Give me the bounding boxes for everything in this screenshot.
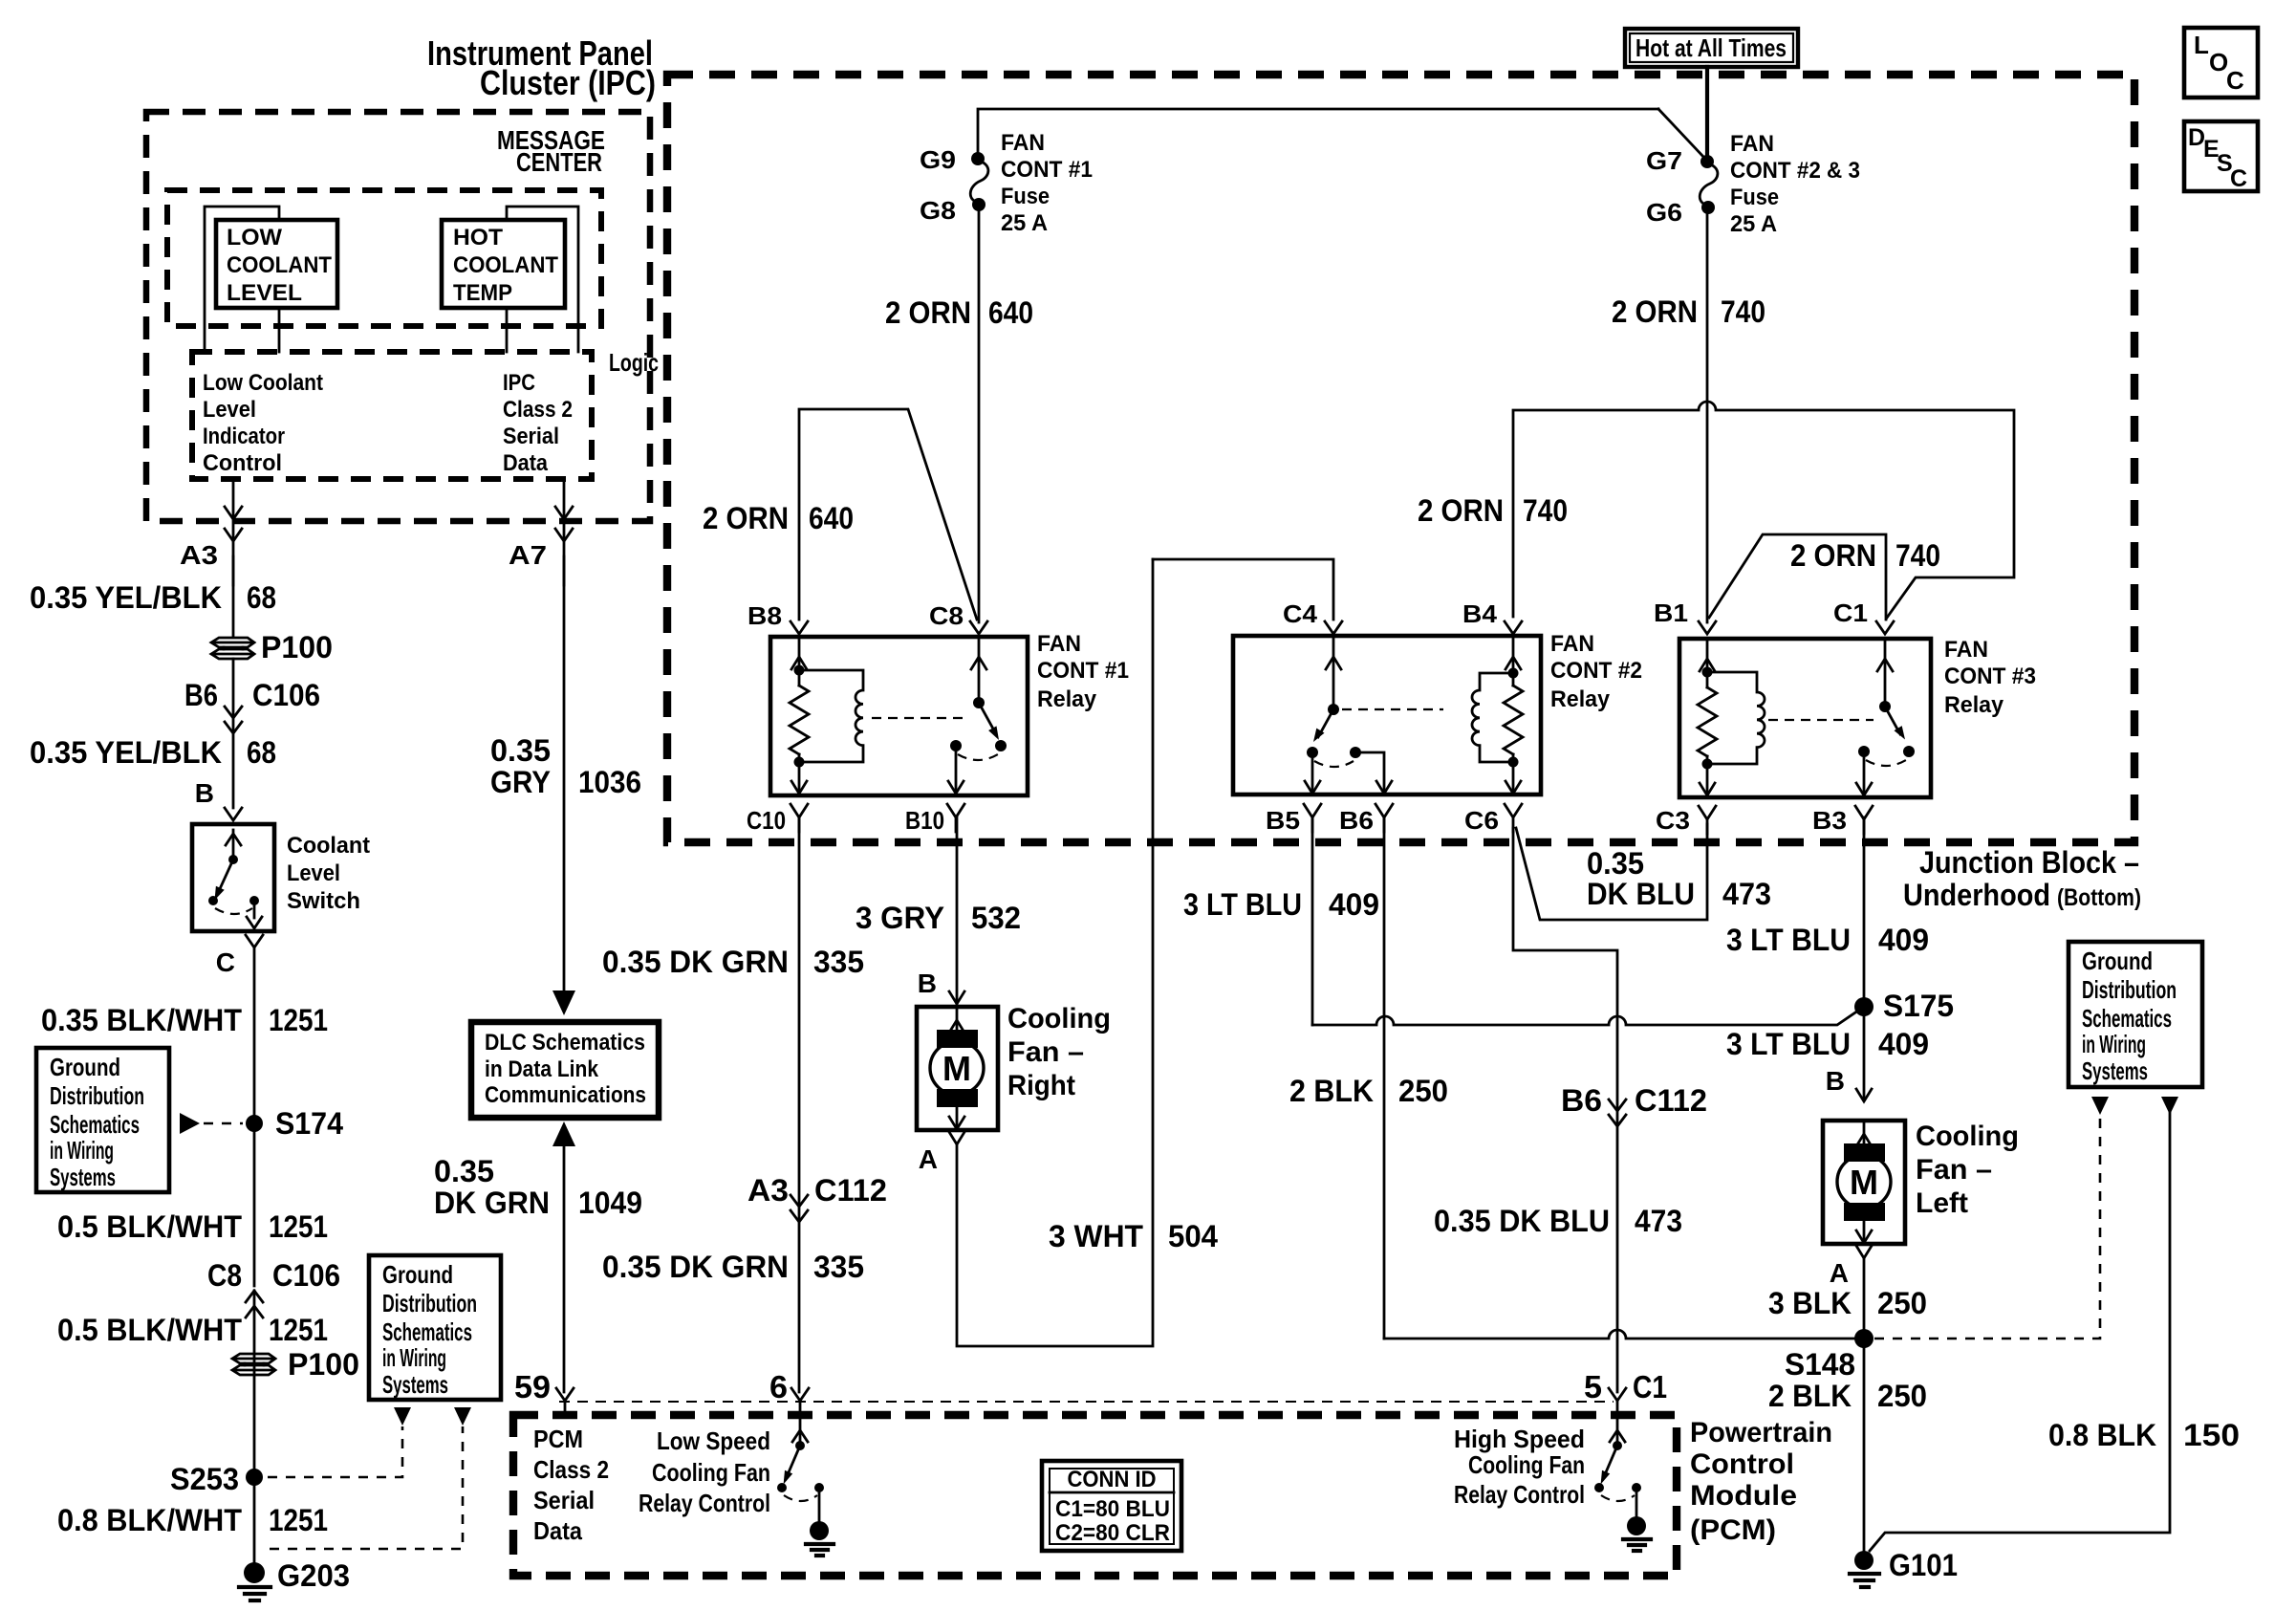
svg-text:C112: C112 xyxy=(1635,1083,1707,1118)
svg-text:B1: B1 xyxy=(1654,599,1688,627)
svg-text:Cluster (IPC): Cluster (IPC) xyxy=(480,63,656,102)
svg-text:Cooling Fan: Cooling Fan xyxy=(1468,1450,1585,1479)
pin C3 xyxy=(1656,806,1716,835)
svg-text:B4: B4 xyxy=(1462,599,1498,628)
wire fan left A to S148 xyxy=(1863,1258,1866,1339)
svg-text:250: 250 xyxy=(1398,1074,1448,1108)
svg-text:1251: 1251 xyxy=(269,1003,328,1037)
svg-text:Class 2: Class 2 xyxy=(533,1455,609,1484)
svg-text:B6: B6 xyxy=(1561,1083,1602,1118)
svg-text:Serial: Serial xyxy=(533,1486,595,1514)
svg-text:S175: S175 xyxy=(1883,989,1954,1023)
svg-text:Schematics: Schematics xyxy=(50,1110,140,1139)
HOT COOLANT TEMP indicator box xyxy=(442,220,565,308)
wire label 2 ORN 640 xyxy=(885,295,1033,330)
coolant level switch box xyxy=(192,824,274,931)
svg-text:(PCM): (PCM) xyxy=(1690,1514,1776,1546)
wire C4 feed from 3 WHT xyxy=(1153,559,1333,620)
svg-text:25 A: 25 A xyxy=(1001,210,1048,236)
wire HOT lamp supply loop xyxy=(507,207,578,352)
svg-text:473: 473 xyxy=(1635,1204,1682,1238)
MESSAGE CENTER dashed box xyxy=(167,190,601,326)
svg-text:CONT #2 & 3: CONT #2 & 3 xyxy=(1730,158,1860,184)
svg-text:1049: 1049 xyxy=(578,1186,642,1220)
svg-text:Level: Level xyxy=(287,860,340,886)
wire S148 to G101 xyxy=(1863,1339,1866,1552)
svg-text:C106: C106 xyxy=(272,1258,340,1293)
svg-text:L: L xyxy=(2194,31,2209,59)
wire label 2 ORN 740 xyxy=(1612,294,1765,329)
Hot at All Times box xyxy=(1625,29,1798,67)
svg-text:G6: G6 xyxy=(1646,198,1682,227)
relay 1 coil xyxy=(799,670,863,762)
pin B of cooling fan right xyxy=(918,969,964,1004)
svg-text:Distribution: Distribution xyxy=(382,1289,477,1317)
svg-text:409: 409 xyxy=(1878,1027,1929,1061)
svg-text:2 BLK: 2 BLK xyxy=(1289,1074,1374,1108)
svg-text:S148: S148 xyxy=(1785,1347,1855,1382)
LOW COOLANT LEVEL indicator box xyxy=(216,220,337,308)
svg-text:Logic: Logic xyxy=(609,348,659,377)
pin B6 xyxy=(1339,804,1393,835)
svg-text:740: 740 xyxy=(1721,294,1765,329)
svg-text:A7: A7 xyxy=(509,540,547,570)
wire label 2 ORN 640 at B8 xyxy=(703,501,854,535)
svg-text:Data: Data xyxy=(533,1516,582,1545)
svg-text:2 ORN: 2 ORN xyxy=(1418,493,1504,528)
wire label 3 LT BLU 409 at B5 xyxy=(1183,887,1379,922)
wire label 2 BLK 250 at G101 xyxy=(1768,1379,1927,1413)
wire label 0.5 BLK/WHT 1251 xyxy=(57,1313,328,1347)
svg-text:FAN: FAN xyxy=(1730,131,1774,157)
svg-text:G8: G8 xyxy=(920,196,956,225)
svg-text:Control: Control xyxy=(1690,1448,1794,1480)
svg-text:2 BLK: 2 BLK xyxy=(1768,1379,1852,1413)
svg-text:2 ORN: 2 ORN xyxy=(1790,538,1876,573)
wire B3 down to cooling fan left xyxy=(1863,817,1866,1100)
svg-text:Fuse: Fuse xyxy=(1730,185,1779,210)
pin 59 of PCM xyxy=(514,1369,574,1415)
svg-text:in Data Link: in Data Link xyxy=(485,1056,599,1082)
svg-text:in Wiring: in Wiring xyxy=(50,1136,114,1165)
dashed reference S253 to ground distribution box xyxy=(268,1426,402,1477)
svg-text:250: 250 xyxy=(1877,1379,1927,1413)
wire label 0.35 DK BLU 473 upper xyxy=(1587,846,1771,911)
fuse FAN CONT #1 25A xyxy=(970,152,988,211)
svg-text:Coolant: Coolant xyxy=(287,833,370,859)
svg-text:S253: S253 xyxy=(170,1462,239,1496)
svg-text:Ground: Ground xyxy=(50,1053,120,1081)
cooling fan left motor xyxy=(1823,1121,1905,1244)
wire label 0.35 YEL/BLK 68 xyxy=(30,580,276,615)
DESC reference box xyxy=(2184,121,2258,192)
ground symbol inside PCM high speed xyxy=(1623,1516,1651,1551)
pin C10 xyxy=(747,804,808,835)
relay 3 switch xyxy=(1856,639,1915,795)
svg-text:2 ORN: 2 ORN xyxy=(703,501,789,535)
reference arrow mid left xyxy=(394,1407,411,1426)
svg-text:0.35 DK GRN: 0.35 DK GRN xyxy=(602,1250,789,1284)
svg-text:C4: C4 xyxy=(1283,599,1318,628)
svg-text:G203: G203 xyxy=(277,1558,350,1593)
svg-text:C: C xyxy=(2226,66,2244,95)
svg-text:G9: G9 xyxy=(920,145,956,174)
svg-text:0.35: 0.35 xyxy=(490,733,551,768)
svg-text:C8: C8 xyxy=(929,601,964,630)
pin 6 of PCM xyxy=(769,1369,809,1404)
Coolant Level Switch label xyxy=(287,833,370,914)
high speed fan relay control driver switch xyxy=(1594,1401,1641,1518)
wire C10 down to PCM pin 6 xyxy=(798,817,801,1392)
IPC Class 2 Serial Data label xyxy=(503,370,573,476)
svg-text:Relay Control: Relay Control xyxy=(639,1489,770,1517)
svg-text:150: 150 xyxy=(2183,1418,2240,1452)
svg-text:C1: C1 xyxy=(1633,1369,1667,1404)
FAN CONT #1 Fuse 25 A label xyxy=(1001,130,1093,236)
MESSAGE CENTER label xyxy=(497,125,605,177)
svg-text:0.35 YEL/BLK: 0.35 YEL/BLK xyxy=(30,735,222,770)
svg-text:(Bottom): (Bottom) xyxy=(2057,884,2141,911)
svg-text:M: M xyxy=(942,1049,971,1088)
svg-text:0.5 BLK/WHT: 0.5 BLK/WHT xyxy=(57,1313,242,1347)
svg-text:C106: C106 xyxy=(252,678,320,712)
svg-text:Underhood: Underhood xyxy=(1903,878,2050,912)
svg-text:Junction Block –: Junction Block – xyxy=(1919,845,2139,880)
svg-text:Cooling Fan: Cooling Fan xyxy=(652,1458,770,1487)
svg-text:M: M xyxy=(1850,1163,1878,1202)
svg-text:Relay Control: Relay Control xyxy=(1454,1480,1585,1509)
svg-text:Powertrain: Powertrain xyxy=(1690,1417,1832,1448)
pin A of cooling fan right xyxy=(919,1132,964,1174)
pin C1 xyxy=(1833,599,1894,634)
wire 3 WHT 504 fan right A to relay 2 C4 xyxy=(957,559,1153,1346)
Junction Block dashed box xyxy=(667,75,2134,842)
svg-text:COOLANT: COOLANT xyxy=(453,252,558,278)
svg-text:Hot at All Times: Hot at All Times xyxy=(1635,33,1787,62)
FAN CONT #1 Relay label xyxy=(1037,631,1129,712)
wire label 0.8 BLK/WHT 1251 xyxy=(57,1503,328,1537)
svg-text:B10: B10 xyxy=(905,806,944,835)
connector B6 C112 xyxy=(1561,1083,1707,1126)
wire switch C to S174 xyxy=(253,947,256,1286)
svg-text:DK BLU: DK BLU xyxy=(1587,877,1695,911)
svg-text:C6: C6 xyxy=(1464,806,1499,835)
svg-text:Communications: Communications xyxy=(485,1082,646,1108)
svg-text:3 BLK: 3 BLK xyxy=(1768,1286,1852,1320)
wire label 0.35 GRY 1036 xyxy=(490,733,641,799)
wire B6 down 2 BLK 250 xyxy=(1383,817,1386,1339)
wire label 0.8 BLK 150 xyxy=(2048,1418,2240,1452)
Instrument Panel Cluster (IPC) title xyxy=(427,33,656,102)
wire IPC output A3 xyxy=(225,479,242,585)
ground distribution reference box right xyxy=(2069,942,2202,1087)
wire label 2 ORN 740 at jumper xyxy=(1790,538,1940,573)
svg-text:3 LT BLU: 3 LT BLU xyxy=(1183,887,1302,922)
svg-text:1251: 1251 xyxy=(269,1209,328,1244)
svg-text:in Wiring: in Wiring xyxy=(2082,1030,2146,1058)
PCM connector C1 thin dashed boundary xyxy=(559,1401,1614,1403)
relay 3 coil xyxy=(1707,672,1765,764)
pin C8 xyxy=(929,601,987,634)
svg-text:Relay: Relay xyxy=(1550,686,1611,712)
Cooling Fan Right label xyxy=(1007,1003,1111,1101)
reference arrow right solid xyxy=(2161,1097,2178,1115)
svg-text:Systems: Systems xyxy=(50,1163,116,1191)
svg-text:0.35 DK BLU: 0.35 DK BLU xyxy=(1434,1204,1610,1238)
Low Speed Cooling Fan Relay Control label xyxy=(639,1426,770,1517)
Cooling Fan Left label xyxy=(1916,1121,2019,1219)
splice S148 xyxy=(1785,1329,1874,1382)
wire IPC output A7 xyxy=(555,479,573,585)
svg-text:0.35: 0.35 xyxy=(434,1154,494,1188)
svg-text:2 ORN: 2 ORN xyxy=(885,295,971,330)
wire label 0.35 YEL/BLK 68 xyxy=(30,735,276,770)
svg-text:C2=80 CLR: C2=80 CLR xyxy=(1055,1520,1170,1546)
wire label 3 BLK 250 xyxy=(1768,1286,1927,1320)
cooling fan right motor xyxy=(917,1007,998,1130)
svg-text:TEMP: TEMP xyxy=(453,280,512,306)
svg-text:3 LT BLU: 3 LT BLU xyxy=(1726,1027,1851,1061)
wire label 0.35 DK BLU 473 lower xyxy=(1434,1204,1682,1238)
relay 2 armature dashed link xyxy=(1342,708,1443,710)
svg-text:640: 640 xyxy=(809,501,854,535)
svg-text:FAN: FAN xyxy=(1037,631,1081,657)
wire B10 down to cooling fan right xyxy=(956,817,959,1005)
wire label 3 WHT 504 xyxy=(1049,1219,1218,1253)
relay 3 coil branch B1 xyxy=(1698,639,1717,795)
svg-text:A3: A3 xyxy=(747,1173,789,1208)
svg-text:640: 640 xyxy=(988,295,1033,330)
connector C8 C106 xyxy=(207,1258,340,1317)
splice S174 xyxy=(246,1106,343,1141)
svg-text:B: B xyxy=(1826,1066,1845,1096)
fuse FAN CONT #2 & 3 25A xyxy=(1700,155,1718,214)
IPC outer dashed box xyxy=(146,112,650,521)
pin B1 xyxy=(1654,599,1716,634)
arrow into DLC box xyxy=(552,991,575,1015)
svg-text:CENTER: CENTER xyxy=(516,147,602,177)
Powertrain Control Module (PCM) label xyxy=(1690,1417,1832,1546)
svg-text:C: C xyxy=(2230,165,2247,192)
svg-text:LOW: LOW xyxy=(227,225,282,250)
pin 5 C1 of PCM xyxy=(1584,1369,1667,1404)
svg-text:59: 59 xyxy=(514,1369,551,1404)
pin B10 xyxy=(905,804,964,835)
svg-text:0.5 BLK/WHT: 0.5 BLK/WHT xyxy=(57,1209,242,1244)
svg-text:1036: 1036 xyxy=(578,765,641,799)
svg-text:S174: S174 xyxy=(275,1106,343,1141)
wire label 0.35 DK GRN 335 upper xyxy=(602,945,864,979)
svg-text:C8: C8 xyxy=(207,1258,242,1293)
svg-text:CONT #1: CONT #1 xyxy=(1037,658,1129,684)
svg-text:C112: C112 xyxy=(814,1173,887,1208)
svg-text:Distribution: Distribution xyxy=(2082,975,2177,1004)
svg-text:0.35: 0.35 xyxy=(1587,846,1644,881)
svg-text:GRY: GRY xyxy=(490,765,551,799)
LOC reference box xyxy=(2184,28,2258,98)
svg-text:25 A: 25 A xyxy=(1730,211,1777,237)
svg-text:COOLANT: COOLANT xyxy=(227,252,332,278)
wire LOW lamp to logic xyxy=(278,308,281,352)
svg-text:409: 409 xyxy=(1878,923,1929,957)
wire fuse1 output 2 ORN 640 down to C8 xyxy=(978,209,981,622)
pin B8 xyxy=(747,601,808,634)
reference arrow to S174 xyxy=(180,1113,243,1134)
wire P100 to C106 xyxy=(232,659,235,808)
svg-text:740: 740 xyxy=(1523,493,1568,528)
svg-text:335: 335 xyxy=(813,1250,864,1284)
svg-text:Left: Left xyxy=(1916,1187,1968,1219)
svg-text:3 GRY: 3 GRY xyxy=(856,901,944,935)
svg-text:Low Speed: Low Speed xyxy=(657,1426,770,1455)
svg-text:P100: P100 xyxy=(288,1347,359,1382)
svg-text:DLC Schematics: DLC Schematics xyxy=(485,1030,645,1056)
ground distribution reference box middle xyxy=(369,1255,501,1400)
svg-text:Level: Level xyxy=(203,397,256,423)
svg-text:P100: P100 xyxy=(261,630,333,664)
ground G101 xyxy=(1850,1548,1958,1587)
relay 1 coil branch B8 xyxy=(790,637,809,794)
svg-text:504: 504 xyxy=(1168,1219,1218,1253)
svg-text:Fuse: Fuse xyxy=(1001,184,1050,209)
wire hot feed down to G7 xyxy=(1705,67,1709,159)
Logic dashed box xyxy=(192,352,592,479)
CONN ID table xyxy=(1042,1461,1181,1551)
relay FAN CONT #1 box xyxy=(770,637,1028,795)
svg-text:C3: C3 xyxy=(1656,806,1690,835)
ground distribution reference box left xyxy=(36,1048,169,1192)
svg-text:Systems: Systems xyxy=(2082,1056,2148,1085)
svg-text:CONT #2: CONT #2 xyxy=(1550,658,1642,684)
svg-text:Low Coolant: Low Coolant xyxy=(203,370,323,396)
relay 2 coil xyxy=(1472,673,1513,762)
PCM Class 2 Serial Data label xyxy=(533,1425,609,1545)
coolant level switch contacts xyxy=(208,830,262,928)
wire label 2 ORN 740 at B4 xyxy=(1418,493,1568,528)
svg-text:68: 68 xyxy=(247,580,276,615)
svg-text:FAN: FAN xyxy=(1001,130,1045,156)
svg-text:A3: A3 xyxy=(180,540,218,570)
svg-text:B8: B8 xyxy=(747,601,782,630)
svg-text:1251: 1251 xyxy=(269,1313,328,1347)
pin A of cooling fan left xyxy=(1830,1246,1872,1288)
wire fuse2 output 2 ORN 740 down to B1 xyxy=(1706,212,1709,622)
pin C6 xyxy=(1464,804,1522,835)
ground G203 xyxy=(239,1558,350,1600)
svg-text:3 LT BLU: 3 LT BLU xyxy=(1726,923,1851,957)
svg-text:Schematics: Schematics xyxy=(382,1317,472,1346)
svg-text:Class 2: Class 2 xyxy=(503,397,573,423)
svg-text:B5: B5 xyxy=(1266,806,1300,835)
svg-text:Indicator: Indicator xyxy=(203,424,285,449)
svg-text:C1=80 BLU: C1=80 BLU xyxy=(1055,1496,1170,1522)
svg-text:0.8 BLK: 0.8 BLK xyxy=(2048,1418,2156,1452)
pin C of coolant level switch xyxy=(216,935,263,977)
connector P100 lower xyxy=(232,1347,359,1382)
relay 1 armature dashed link xyxy=(872,717,968,719)
wire label 0.5 BLK/WHT 1251 xyxy=(57,1209,328,1244)
relay 2 coil branch B4 xyxy=(1504,636,1523,794)
svg-text:LEVEL: LEVEL xyxy=(227,280,302,306)
svg-text:Relay: Relay xyxy=(1944,692,2004,718)
dashed reference S148 to ground distribution box right xyxy=(1874,1115,2100,1339)
svg-text:532: 532 xyxy=(971,901,1021,935)
wire B1 to C1 jumper xyxy=(1709,534,1886,620)
wire label 3 GRY 532 xyxy=(856,901,1021,935)
wire label 0.35 BLK/WHT 1251 xyxy=(41,1003,328,1037)
svg-text:G101: G101 xyxy=(1889,1548,1958,1582)
svg-text:A: A xyxy=(919,1144,938,1174)
splice S253 xyxy=(170,1462,263,1496)
svg-text:C: C xyxy=(216,947,235,977)
svg-text:Data: Data xyxy=(503,450,549,476)
svg-text:CONT #1: CONT #1 xyxy=(1001,157,1093,183)
FAN CONT #3 Relay label xyxy=(1944,637,2036,718)
svg-text:C1: C1 xyxy=(1833,599,1868,627)
svg-text:Distribution: Distribution xyxy=(50,1081,144,1110)
pin B of coolant level switch xyxy=(195,778,242,820)
wire label 3 LT BLU 409 above S175 xyxy=(1726,923,1929,957)
svg-text:335: 335 xyxy=(813,945,864,979)
High Speed Cooling Fan Relay Control label xyxy=(1454,1425,1585,1509)
svg-text:A: A xyxy=(1830,1258,1849,1288)
wire C8 to B8 jumper 2 ORN 640 xyxy=(799,409,977,620)
wire LOW lamp supply loop xyxy=(205,207,279,352)
wire HOT lamp to logic xyxy=(506,308,509,352)
svg-text:0.8 BLK/WHT: 0.8 BLK/WHT xyxy=(57,1503,242,1537)
wire C6 down to PCM pin 5 xyxy=(1513,828,1617,1392)
pin B4 xyxy=(1462,599,1522,634)
wire B6 run to splice S148 with hop xyxy=(1384,1330,1855,1339)
relay 3 armature dashed link xyxy=(1768,719,1874,721)
svg-text:1251: 1251 xyxy=(269,1503,328,1537)
wire label 3 LT BLU 409 below S175 xyxy=(1726,1027,1929,1061)
Junction Block Underhood label xyxy=(1903,845,2141,912)
FAN CONT #2 Relay label xyxy=(1550,631,1642,712)
wire power rail to fuse 1 xyxy=(978,109,1658,155)
svg-text:High Speed: High Speed xyxy=(1454,1425,1585,1453)
ground symbol inside PCM low speed xyxy=(806,1521,834,1556)
svg-text:Systems: Systems xyxy=(382,1370,448,1399)
dashed reference G203 to ground distribution box xyxy=(270,1426,463,1549)
svg-text:Cooling: Cooling xyxy=(1916,1121,2019,1152)
svg-text:2 ORN: 2 ORN xyxy=(1612,294,1698,329)
wire rail diagonal to G7 xyxy=(1658,109,1704,158)
svg-text:Ground: Ground xyxy=(2082,947,2153,975)
svg-text:Fan –: Fan – xyxy=(1916,1154,1992,1186)
reference arrow right dashed xyxy=(2091,1097,2109,1115)
svg-text:Serial: Serial xyxy=(503,424,559,449)
svg-text:409: 409 xyxy=(1329,887,1379,922)
svg-text:B: B xyxy=(195,778,214,808)
svg-text:Fan –: Fan – xyxy=(1007,1036,1084,1068)
svg-text:740: 740 xyxy=(1895,538,1940,573)
svg-text:in Wiring: in Wiring xyxy=(382,1343,446,1372)
svg-text:6: 6 xyxy=(769,1369,788,1404)
svg-text:B3: B3 xyxy=(1812,806,1847,835)
svg-text:FAN: FAN xyxy=(1944,637,1988,663)
svg-text:B: B xyxy=(918,969,937,998)
svg-text:0.35 BLK/WHT: 0.35 BLK/WHT xyxy=(41,1003,242,1037)
svg-text:HOT: HOT xyxy=(453,225,503,250)
pin B of cooling fan left xyxy=(1826,1066,1872,1101)
svg-text:Relay: Relay xyxy=(1037,686,1097,712)
wire C106 to P100 xyxy=(253,1291,256,1562)
svg-text:IPC: IPC xyxy=(503,370,535,396)
wire DK GRN 1049 to PCM pin 59 xyxy=(563,1144,566,1392)
svg-text:B6: B6 xyxy=(1339,806,1374,835)
svg-text:G7: G7 xyxy=(1646,146,1682,175)
